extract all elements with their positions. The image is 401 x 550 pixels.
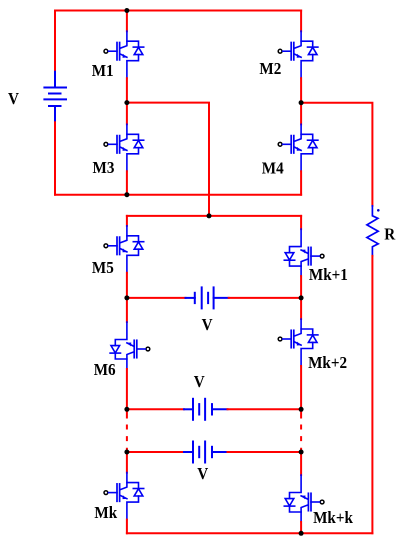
wire battery V3 right xyxy=(228,451,302,453)
transistor M5 xyxy=(104,226,144,273)
transistor M3 xyxy=(104,124,144,171)
wire right dashed continuation xyxy=(300,425,302,453)
wire R to bottom rail xyxy=(371,256,373,533)
wire M5 source xyxy=(126,273,128,298)
svg-text:M5: M5 xyxy=(92,260,114,278)
transistor M4 xyxy=(278,124,318,171)
svg-text:V: V xyxy=(194,373,205,391)
wire left dashed continuation xyxy=(126,425,128,453)
transistor Mk+k xyxy=(284,475,324,522)
transistor M6 xyxy=(110,322,150,369)
wire battery V1 right xyxy=(229,297,301,299)
wire battery V3 left xyxy=(127,451,184,453)
svg-text:V: V xyxy=(8,91,19,109)
wire M5 drain xyxy=(126,216,128,226)
svg-text:M4: M4 xyxy=(262,160,284,178)
node M6 source junction xyxy=(124,407,129,412)
svg-text:R: R xyxy=(384,226,395,244)
wire Mk source xyxy=(126,520,128,534)
node V3 right junction xyxy=(299,450,304,455)
node Mk+2 source junction xyxy=(299,407,304,412)
svg-text:M3: M3 xyxy=(93,160,115,178)
node top rail junction xyxy=(124,8,129,13)
pin dot of R xyxy=(377,209,380,212)
wire Mk drain xyxy=(126,452,128,473)
wire upper rail of lower bridge xyxy=(127,215,301,217)
transistor M1 xyxy=(104,31,144,78)
svg-text:V: V xyxy=(202,317,213,335)
wire top rail xyxy=(55,10,301,12)
wire bottom rail xyxy=(127,532,373,534)
transistor Mk+1 xyxy=(284,229,324,276)
wire Mk+1 drain xyxy=(300,216,302,229)
wire battery V1 left xyxy=(127,297,186,299)
wire M3 source xyxy=(126,171,128,194)
wire M3 drain xyxy=(126,103,128,125)
wire Mk+2 source xyxy=(300,366,302,409)
wire left dashed stub xyxy=(126,409,128,417)
svg-text:M2: M2 xyxy=(259,60,281,78)
wire Mk+k drain xyxy=(300,452,302,475)
svg-text:M1: M1 xyxy=(92,62,114,80)
wire Mk+2 drain xyxy=(300,298,302,319)
transistor Mk xyxy=(104,473,144,520)
node Mk+1 - Mk+2 junction xyxy=(299,295,304,300)
svg-text:Mk+2: Mk+2 xyxy=(308,354,347,372)
wire M2 source to node xyxy=(300,78,302,103)
battery V3 xyxy=(184,442,228,463)
wire right dashed stub xyxy=(300,409,302,417)
wire battery V2 right xyxy=(228,408,302,410)
wire node B to load R xyxy=(301,103,372,206)
svg-text:Mk+1: Mk+1 xyxy=(309,266,348,284)
battery V (source V) xyxy=(44,72,66,123)
transistor Mk+2 xyxy=(278,319,318,366)
wire M4 drain xyxy=(300,103,302,125)
node lower bridge top junction xyxy=(207,213,212,218)
wire left source bottom xyxy=(54,122,56,194)
node bottom rail junction xyxy=(299,531,304,536)
wire M1 drain xyxy=(126,11,128,32)
node M5-M6 junction xyxy=(124,295,129,300)
transistor M2 xyxy=(278,31,318,78)
node V3 left junction xyxy=(124,450,129,455)
svg-text:V: V xyxy=(197,466,208,484)
svg-text:M6: M6 xyxy=(94,361,116,379)
resistor R xyxy=(367,206,378,256)
wire M1 source to node xyxy=(126,78,128,102)
node M3 source rail junction xyxy=(124,192,129,197)
node M2-M4 junction xyxy=(299,100,304,105)
wire node A to lower bridge xyxy=(127,103,209,216)
wire battery V2 left xyxy=(127,408,184,410)
wire left source top xyxy=(54,11,56,72)
svg-text:Mk: Mk xyxy=(94,505,117,523)
wire M6 drain xyxy=(126,298,128,322)
wire lower rail of top bridge xyxy=(55,194,301,196)
wire M2 drain xyxy=(300,11,302,32)
wire Mk+k source xyxy=(300,522,302,533)
wire Mk+1 source xyxy=(300,276,302,298)
svg-text:Mk+k: Mk+k xyxy=(313,510,353,528)
wire M6 source xyxy=(126,369,128,409)
battery V2 xyxy=(184,399,228,420)
node M1-M3 junction xyxy=(124,100,129,105)
battery V1 xyxy=(186,287,229,308)
wire M4 source xyxy=(300,171,302,194)
